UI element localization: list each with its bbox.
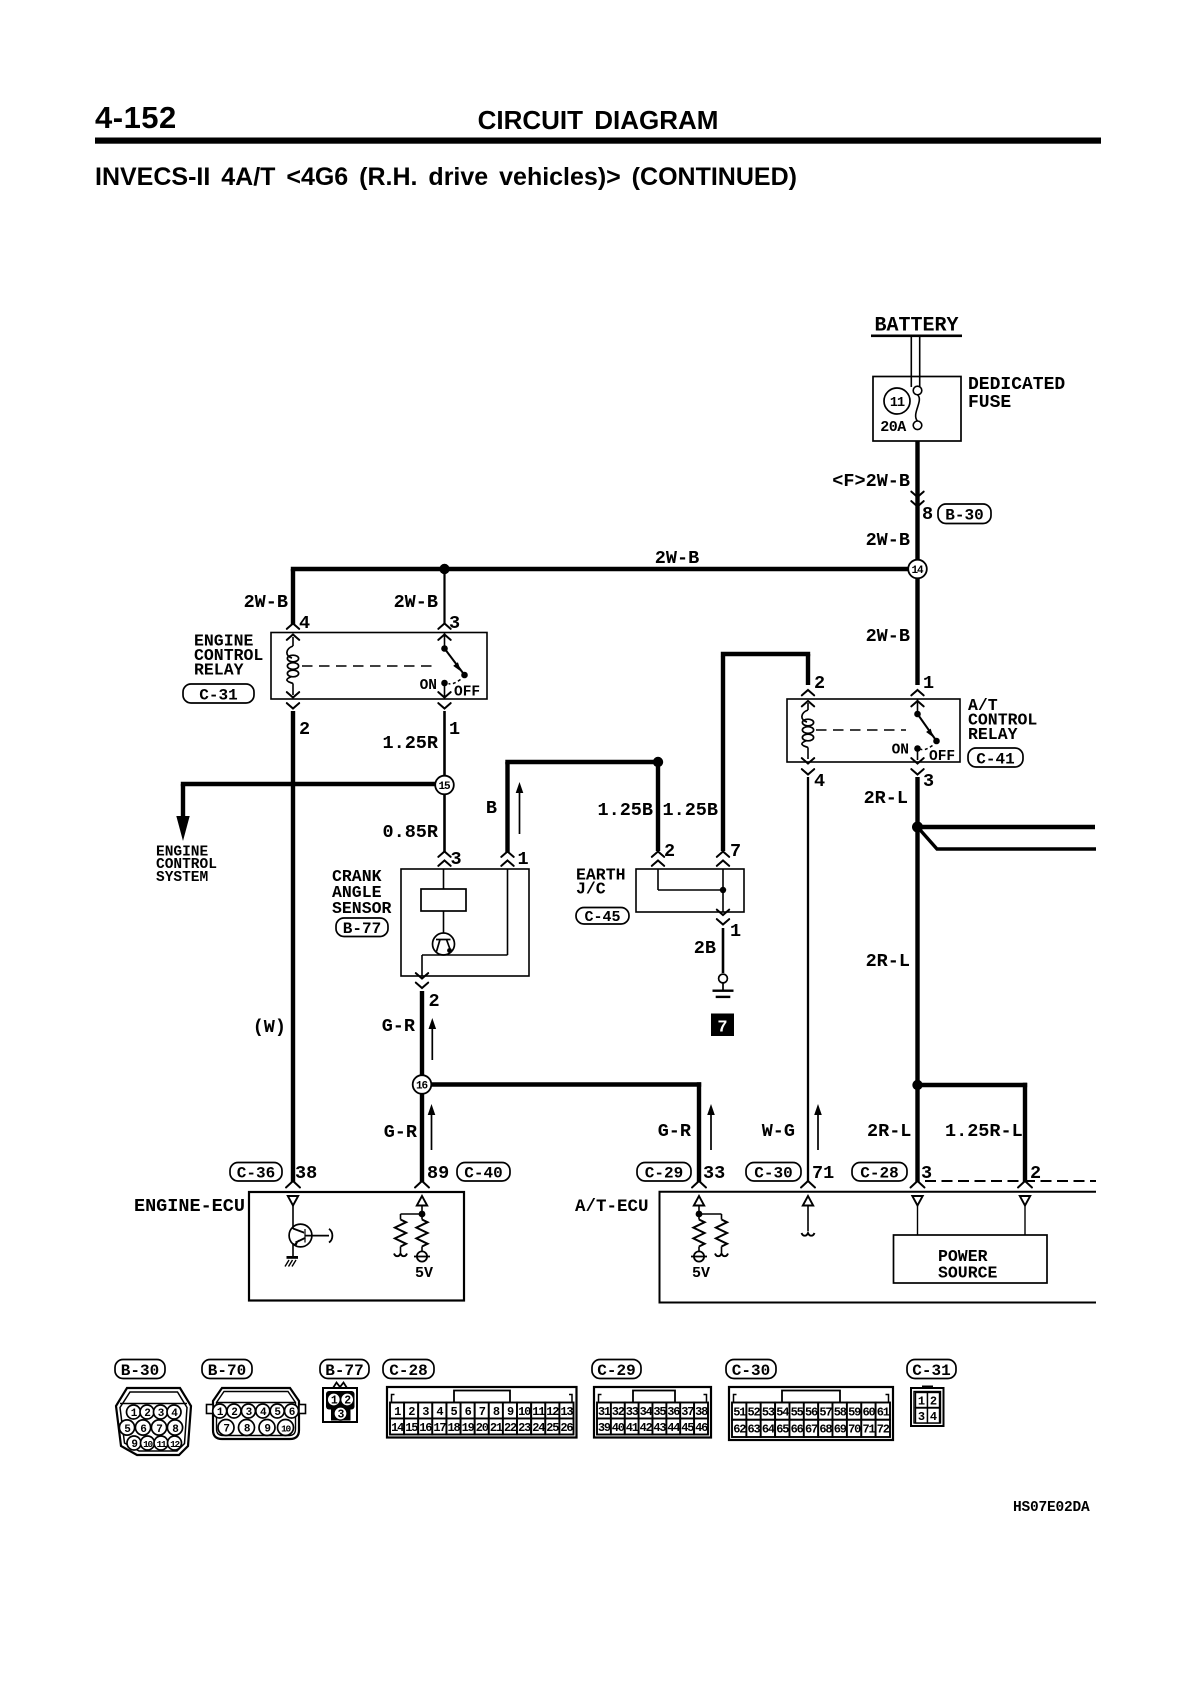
wire G-R crank pin2 to junction 16 — [420, 991, 424, 1075]
svg-text:SENSOR: SENSOR — [332, 899, 392, 918]
ECU pin 33 triangle — [694, 1196, 704, 1206]
svg-text:14: 14 — [391, 1421, 404, 1435]
svg-text:53: 53 — [762, 1405, 775, 1419]
pin 89 label — [427, 1163, 449, 1184]
svg-text:C-28: C-28 — [389, 1362, 427, 1380]
pin 2 label — [1030, 1163, 1041, 1184]
section title INVECS-II — [95, 163, 797, 191]
AT relay pin 1 label — [923, 673, 934, 694]
svg-text:ON: ON — [892, 743, 909, 759]
junction 14 — [908, 560, 927, 579]
svg-text:63: 63 — [747, 1423, 760, 1437]
svg-text:24: 24 — [532, 1421, 545, 1435]
svg-text:41: 41 — [626, 1421, 639, 1435]
earth JC pin 7 chevrons — [717, 852, 729, 866]
svg-text:51: 51 — [733, 1405, 746, 1419]
svg-text:54: 54 — [776, 1405, 789, 1419]
AT relay pin 1 chevrons — [911, 690, 923, 706]
svg-text:9: 9 — [264, 1423, 270, 1435]
svg-text:23: 23 — [518, 1421, 531, 1435]
svg-text:(W): (W) — [253, 1017, 286, 1038]
label W-G at pin 71 — [762, 1121, 795, 1142]
wire second continuation right — [918, 827, 1097, 849]
connector tag C-41 — [968, 748, 1023, 768]
svg-text:INVECS-II 4A/T <4G6 (R.H. driv: INVECS-II 4A/T <4G6 (R.H. drive vehicles… — [95, 163, 797, 191]
AT relay pin 3 chevrons — [911, 758, 923, 774]
earth JC internal wiring — [658, 869, 726, 912]
dedicated fuse box — [873, 377, 961, 442]
pin 8 label — [922, 504, 933, 525]
svg-text:31: 31 — [598, 1405, 611, 1419]
label 2R-L below AT relay — [864, 788, 908, 809]
pullup resistors at pin 33 — [693, 1206, 728, 1257]
header rule — [95, 138, 1101, 144]
label G-R above junction 16 — [382, 1016, 416, 1037]
label ENGINE-ECU — [134, 1196, 245, 1217]
svg-text:66: 66 — [791, 1423, 804, 1437]
svg-text:ON: ON — [420, 678, 437, 694]
svg-text:13: 13 — [560, 1405, 573, 1419]
ECU pin 71 triangle — [803, 1196, 813, 1206]
svg-text:2: 2 — [429, 991, 440, 1012]
svg-text:11: 11 — [890, 396, 905, 411]
svg-text:2W-B: 2W-B — [866, 530, 910, 551]
crank angle sensor box B-77 — [401, 869, 529, 976]
crank sensor pickup — [433, 911, 455, 955]
svg-text:SYSTEM: SYSTEM — [156, 870, 208, 886]
svg-text:11: 11 — [532, 1405, 545, 1419]
connector C-28 drawing — [387, 1387, 577, 1438]
junction 15 — [435, 776, 454, 795]
label EARTH J/C — [576, 866, 626, 899]
arrow up at pin 71 — [814, 1104, 822, 1150]
svg-text:46: 46 — [695, 1421, 708, 1435]
earth JC pin 2 chevrons — [652, 852, 664, 866]
connector C-29 drawing — [594, 1387, 711, 1438]
crank sensor internal wiring — [422, 869, 508, 976]
wire end fork at ECU pin 33 — [692, 1181, 706, 1188]
svg-text:1: 1 — [918, 1394, 925, 1408]
connector tag C-29 bottom — [592, 1360, 641, 1380]
svg-text:58: 58 — [834, 1405, 847, 1419]
svg-text:C-31: C-31 — [912, 1362, 950, 1380]
svg-text:61: 61 — [877, 1405, 890, 1419]
svg-text:G-R: G-R — [384, 1122, 418, 1143]
svg-text:22: 22 — [504, 1421, 517, 1435]
pin 2 lead to power source — [1024, 1206, 1026, 1236]
label B — [486, 798, 497, 819]
wire end fork at ECU pin 3 — [911, 1181, 925, 1188]
engine control relay box C-31 — [271, 633, 487, 700]
wire end fork at ECU pin 71 — [801, 1181, 815, 1188]
pin 3 label — [921, 1163, 932, 1184]
dashed connector boundary — [925, 1180, 1096, 1182]
fuse element — [913, 386, 922, 429]
engine ECU box — [249, 1192, 464, 1301]
label G-R at pin 33 — [658, 1121, 692, 1142]
label ENGINE CONTROL SYSTEM — [156, 845, 217, 886]
svg-text:2W-B: 2W-B — [394, 592, 438, 613]
svg-text:57: 57 — [819, 1405, 832, 1419]
connector B-70 drawing — [207, 1388, 306, 1439]
label 2W-B at pin 4 — [244, 592, 288, 613]
svg-text:B: B — [486, 798, 497, 819]
label <F>2W-B — [832, 471, 910, 492]
svg-text:39: 39 — [598, 1421, 611, 1435]
svg-text:C-28: C-28 — [860, 1165, 898, 1183]
wire 2W-B from fuse to junction 14 — [915, 441, 919, 569]
pin 4 connector chevrons — [287, 624, 299, 640]
connector tag C-36 — [230, 1163, 282, 1183]
ground symbol — [713, 974, 734, 998]
crank pin 3 chevrons — [438, 852, 450, 866]
crank pin 1 label — [518, 849, 529, 870]
svg-text:10: 10 — [518, 1405, 531, 1419]
connector tag C-29 top — [637, 1163, 691, 1183]
svg-text:72: 72 — [877, 1423, 890, 1437]
svg-text:14: 14 — [911, 565, 924, 577]
svg-text:52: 52 — [747, 1405, 760, 1419]
svg-text:1.25R: 1.25R — [382, 733, 438, 754]
connector C-31 drawing — [911, 1386, 944, 1427]
5V supply terminal AT ECU — [691, 1251, 710, 1282]
node dot at relay pin 3 branch — [439, 564, 449, 574]
svg-text:1.25B: 1.25B — [597, 800, 653, 821]
svg-text:67: 67 — [805, 1423, 818, 1437]
label ENGINE CONTROL RELAY — [194, 632, 263, 680]
node dot 1.25R-L branch — [912, 1080, 922, 1090]
svg-text:7: 7 — [156, 1424, 162, 1436]
engine relay coil — [287, 637, 299, 695]
ECU pin 3 triangle — [912, 1196, 922, 1206]
svg-text:2: 2 — [930, 1394, 937, 1408]
connector B-30 drawing — [116, 1388, 191, 1455]
wire 1.25B to earth JC pin 2 — [656, 762, 660, 851]
svg-text:C-29: C-29 — [645, 1165, 683, 1183]
fuse number 11 circle — [884, 388, 910, 414]
svg-text:4: 4 — [814, 771, 825, 792]
svg-text:3: 3 — [449, 613, 460, 634]
svg-text:2R-L: 2R-L — [867, 1121, 911, 1142]
crank pin 3 label — [451, 849, 462, 870]
svg-text:16: 16 — [416, 1081, 428, 1093]
svg-text:37: 37 — [681, 1405, 694, 1419]
svg-text:34: 34 — [640, 1405, 653, 1419]
svg-text:W-G: W-G — [762, 1121, 795, 1142]
pin 2 label — [299, 719, 310, 740]
svg-text:1: 1 — [923, 673, 934, 694]
label 1.25R — [382, 733, 438, 754]
svg-text:BATTERY: BATTERY — [874, 315, 958, 338]
svg-text:2: 2 — [408, 1405, 415, 1419]
battery — [871, 315, 962, 388]
svg-text:C-45: C-45 — [584, 909, 620, 926]
svg-text:55: 55 — [791, 1405, 804, 1419]
svg-text:3: 3 — [918, 1410, 925, 1424]
svg-text:20: 20 — [476, 1421, 489, 1435]
svg-text:SOURCE: SOURCE — [938, 1264, 998, 1283]
svg-text:9: 9 — [507, 1405, 514, 1419]
wire B crank pin1 riser — [505, 762, 658, 852]
power source box — [894, 1235, 1048, 1283]
wire 1.25R-L branch — [918, 1083, 1028, 1182]
svg-text:0.85R: 0.85R — [382, 822, 438, 843]
svg-text:C-29: C-29 — [597, 1362, 635, 1380]
wire 2W-B horizontal bus — [291, 567, 918, 571]
wire 1.25R pin1 to junction 15 — [443, 711, 446, 776]
svg-text:RELAY: RELAY — [194, 661, 244, 680]
label A/T CONTROL RELAY — [968, 696, 1037, 744]
svg-text:2: 2 — [299, 719, 310, 740]
svg-text:5V: 5V — [692, 1265, 710, 1282]
label DEDICATED FUSE — [968, 375, 1065, 413]
svg-text:21: 21 — [490, 1421, 503, 1435]
svg-text:33: 33 — [626, 1405, 639, 1419]
earth point 7 marker — [711, 1014, 734, 1038]
svg-text:71: 71 — [862, 1423, 875, 1437]
svg-text:64: 64 — [762, 1423, 775, 1437]
svg-text:20A: 20A — [880, 419, 906, 436]
connector tag C-31 — [183, 684, 254, 704]
svg-text:5: 5 — [450, 1405, 457, 1419]
fuse rating 20A — [880, 419, 906, 436]
svg-text:68: 68 — [819, 1423, 832, 1437]
engine relay dashed link — [302, 665, 437, 667]
crank pin 2 chevrons — [416, 973, 428, 988]
label 2B — [694, 938, 716, 959]
svg-text:C-30: C-30 — [732, 1362, 770, 1380]
pin 3 label — [449, 613, 460, 634]
label 1.25R-L at pin 2 — [945, 1121, 1023, 1142]
svg-text:A/T-ECU: A/T-ECU — [575, 1197, 649, 1217]
svg-text:1.25B: 1.25B — [662, 800, 718, 821]
crank pin 2 label — [429, 991, 440, 1012]
engine relay switch — [441, 633, 468, 697]
svg-text:65: 65 — [776, 1423, 789, 1437]
svg-text:40: 40 — [612, 1421, 625, 1435]
pin 3 connector chevrons — [438, 624, 450, 640]
label CRANK ANGLE SENSOR — [332, 867, 392, 918]
svg-text:HS07E02DA: HS07E02DA — [1013, 1500, 1090, 1516]
wire end fork at ECU pin 89 — [415, 1181, 429, 1188]
svg-text:7: 7 — [479, 1405, 486, 1419]
svg-text:C-41: C-41 — [976, 750, 1014, 768]
svg-text:1: 1 — [394, 1405, 401, 1419]
label OFF engine relay — [454, 685, 480, 701]
label A/T-ECU — [575, 1197, 649, 1217]
svg-text:RELAY: RELAY — [968, 725, 1018, 744]
connector tag C-45 — [576, 908, 629, 927]
svg-text:12: 12 — [546, 1405, 559, 1419]
svg-text:CIRCUIT DIAGRAM: CIRCUIT DIAGRAM — [478, 105, 719, 135]
svg-text:42: 42 — [640, 1421, 653, 1435]
svg-text:OFF: OFF — [454, 685, 480, 701]
earth JC pin 7 label — [730, 841, 741, 862]
AT relay switch — [914, 699, 940, 760]
connector tag B-30 — [938, 504, 991, 525]
svg-text:2R-L: 2R-L — [866, 951, 910, 972]
svg-text:4-152: 4-152 — [95, 100, 177, 135]
wire 2R-L continuation right — [918, 825, 1096, 829]
page header title CIRCUIT DIAGRAM — [478, 105, 719, 135]
AT control relay box C-41 — [787, 699, 960, 762]
wire 1.25B to earth JC pin 7 — [721, 654, 810, 851]
svg-text:6: 6 — [465, 1405, 472, 1419]
wire drop to AT relay pin 2 — [806, 654, 810, 685]
arrow up at pin 33 — [707, 1104, 715, 1150]
arrow up G-R above 16 — [429, 1018, 437, 1060]
pin 4 label — [299, 613, 310, 634]
svg-text:2: 2 — [231, 1407, 237, 1419]
svg-text:DEDICATED: DEDICATED — [968, 375, 1065, 395]
pullup resistors at pin 89 — [394, 1206, 428, 1257]
svg-text:2: 2 — [814, 673, 825, 694]
label OFF AT relay — [929, 749, 955, 765]
svg-text:7: 7 — [223, 1423, 229, 1435]
label ON engine relay — [420, 678, 437, 694]
svg-text:43: 43 — [653, 1421, 666, 1435]
svg-text:35: 35 — [653, 1405, 666, 1419]
connector tag C-30 bottom — [726, 1360, 776, 1380]
connector tag C-31 bottom — [907, 1360, 956, 1380]
wire pin 3 drop — [443, 571, 445, 624]
connector tag C-30 top — [746, 1163, 801, 1183]
svg-text:45: 45 — [681, 1421, 694, 1435]
svg-text:3: 3 — [451, 849, 462, 870]
earth JC pin 1 chevrons — [717, 910, 729, 925]
pin 71 internal lead — [802, 1206, 815, 1236]
svg-text:26: 26 — [560, 1421, 573, 1435]
svg-text:B-30: B-30 — [945, 507, 983, 525]
svg-text:18: 18 — [447, 1421, 460, 1435]
svg-text:7: 7 — [730, 841, 741, 862]
earth joint connector box C-45 — [636, 869, 744, 912]
crank pin 1 chevrons — [501, 852, 513, 866]
svg-text:C-30: C-30 — [754, 1165, 792, 1183]
svg-text:C-31: C-31 — [199, 686, 237, 704]
connector tag C-28 top — [852, 1163, 907, 1183]
label 2W-B at pin 3 — [394, 592, 438, 613]
svg-text:69: 69 — [834, 1423, 847, 1437]
arrow up beside B wire — [516, 782, 524, 834]
pin 1 connector chevrons — [438, 692, 450, 708]
wire junction16 to ECU pin 89 — [420, 1094, 424, 1182]
wire 2R-L pin3 down — [915, 777, 919, 1085]
svg-text:56: 56 — [805, 1405, 818, 1419]
svg-text:36: 36 — [667, 1405, 680, 1419]
label 2W-B at AT relay — [866, 626, 910, 647]
wire end fork at ECU pin 38 — [286, 1181, 300, 1188]
arrow to engine control system — [176, 816, 189, 841]
pin 2 connector chevrons — [287, 692, 299, 708]
pin 33 label — [703, 1163, 725, 1184]
svg-text:2W-B: 2W-B — [655, 548, 699, 569]
svg-text:3: 3 — [923, 771, 934, 792]
svg-text:70: 70 — [848, 1423, 861, 1437]
svg-text:3: 3 — [422, 1405, 429, 1419]
ECU pin 38 triangle — [288, 1196, 298, 1206]
svg-text:19: 19 — [462, 1421, 475, 1435]
svg-text:32: 32 — [612, 1405, 625, 1419]
svg-text:15: 15 — [405, 1421, 418, 1435]
AT relay pin 4 label — [814, 771, 825, 792]
svg-text:<F>2W-B: <F>2W-B — [832, 471, 910, 492]
svg-text:B-77: B-77 — [343, 920, 381, 938]
pin 1 label — [449, 719, 460, 740]
AT relay pin 3 label — [923, 771, 934, 792]
svg-text:C-40: C-40 — [464, 1165, 502, 1183]
pin 38 label — [295, 1163, 317, 1184]
svg-text:38: 38 — [695, 1405, 708, 1419]
svg-text:59: 59 — [848, 1405, 861, 1419]
svg-text:2: 2 — [144, 1408, 150, 1420]
wire 2W-B to relay pin 4 — [291, 569, 295, 624]
connector tag C-40 — [457, 1163, 510, 1183]
svg-text:7: 7 — [717, 1019, 727, 1038]
pin 71 label — [812, 1163, 834, 1184]
svg-text:17: 17 — [433, 1421, 446, 1435]
ECU pin 89 triangle — [417, 1196, 427, 1206]
svg-text:5V: 5V — [415, 1265, 433, 1282]
svg-text:1: 1 — [449, 719, 460, 740]
svg-text:B-30: B-30 — [121, 1362, 159, 1380]
svg-text:8: 8 — [922, 504, 933, 525]
svg-text:1: 1 — [518, 849, 529, 870]
wire W-G AT relay pin4 down — [807, 777, 809, 1182]
label 1.25B right — [662, 800, 718, 821]
svg-text:4: 4 — [299, 613, 310, 634]
chassis ground inside ECU — [285, 1256, 298, 1267]
svg-text:4: 4 — [436, 1405, 443, 1419]
AT relay pin 2 label — [814, 673, 825, 694]
svg-text:C-36: C-36 — [237, 1165, 275, 1183]
svg-text:89: 89 — [427, 1163, 449, 1184]
wire W to ECU pin 38 — [291, 711, 295, 1182]
node dot 2R-L branch right — [912, 822, 923, 833]
svg-text:FUSE: FUSE — [968, 393, 1011, 413]
label 1.25B left — [597, 800, 653, 821]
svg-text:2R-L: 2R-L — [864, 788, 908, 809]
label (W) — [253, 1017, 286, 1038]
svg-text:71: 71 — [812, 1163, 834, 1184]
svg-text:ENGINE-ECU: ENGINE-ECU — [134, 1196, 245, 1217]
pin 3 lead to power source — [917, 1206, 919, 1236]
svg-text:38: 38 — [295, 1163, 317, 1184]
arrow up at pin 89 — [428, 1104, 436, 1150]
connector tag B-77 — [336, 918, 388, 938]
crank sensor inner element — [421, 869, 466, 911]
svg-text:J/C: J/C — [576, 880, 606, 899]
svg-text:9: 9 — [131, 1439, 137, 1451]
connector B-77 drawing — [323, 1383, 357, 1423]
svg-text:6: 6 — [140, 1424, 146, 1436]
label 2R-L at pin 3 — [867, 1121, 911, 1142]
svg-text:B-77: B-77 — [325, 1362, 363, 1380]
connector tag B-30 bottom — [115, 1360, 165, 1380]
connector tag C-28 bottom — [383, 1360, 434, 1380]
transistor inside engine ECU — [289, 1206, 332, 1257]
wire 2W-B junction14 to AT relay pin1 — [915, 578, 919, 686]
wire 2B to ground — [722, 928, 725, 973]
svg-text:G-R: G-R — [382, 1016, 416, 1037]
svg-text:8: 8 — [493, 1405, 500, 1419]
svg-text:4: 4 — [930, 1410, 937, 1424]
svg-text:6: 6 — [289, 1407, 295, 1419]
connector B-30 pass-through chevrons — [911, 492, 923, 507]
wire junction16 bus to pin 33 — [431, 1082, 701, 1182]
svg-text:60: 60 — [862, 1405, 875, 1419]
AT relay pin 2 chevrons — [802, 690, 814, 706]
